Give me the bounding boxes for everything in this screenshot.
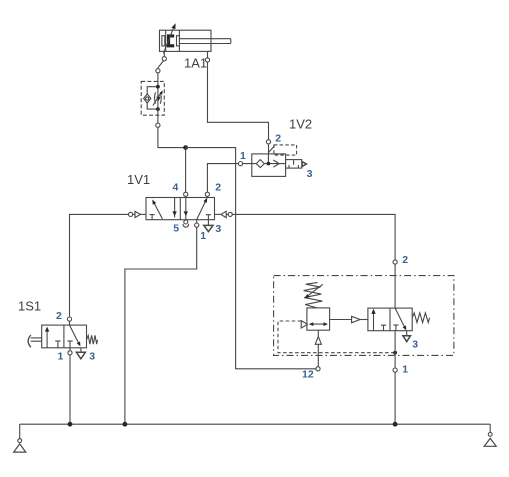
air supply source right (484, 424, 496, 446)
3/2 push button valve 1S1 body (42, 325, 87, 348)
wire junction A to sequence valve port 12 (186, 148, 316, 369)
1S1 right box blocked T (67, 341, 72, 348)
5/2 valve 1V1 body (146, 198, 215, 220)
cushioning adjust arrow (163, 23, 175, 53)
1V1 port 5 exhaust (183, 220, 189, 227)
svg-text:1V2: 1V2 (289, 117, 312, 132)
1S1 port 1 (68, 348, 72, 355)
svg-text:3: 3 (215, 223, 221, 235)
svg-text:1: 1 (58, 351, 64, 363)
svg-text:3: 3 (307, 168, 313, 180)
sequence valve pilot triangle (301, 321, 307, 328)
wire 1V1 port 1 to supply line (125, 227, 197, 424)
1V1 left box flow arrow (152, 200, 162, 219)
junction supply at sequence valve (393, 422, 398, 427)
wire junction A to 1V1 port 4 (184, 148, 188, 198)
svg-text:3: 3 (412, 339, 418, 351)
1V1 right box flow arrow 1 to 2 (197, 198, 208, 220)
sequence valve internal pilot dashed line (278, 321, 397, 355)
port circle cylinder left (162, 57, 166, 61)
wire 1V1 left pilot to 1S1 port 2 (67, 214, 128, 325)
sequence valve adjustable spring (304, 283, 323, 308)
svg-text:12: 12 (302, 368, 314, 380)
wire cylinder right port to 1V2 port 2 (208, 62, 271, 154)
svg-text:2: 2 (215, 182, 221, 194)
1S1 port 3 exhaust triangle (76, 348, 85, 359)
1S1 push button (28, 335, 42, 347)
sequence valve 3/2 body (368, 308, 412, 331)
1V1 left pilot (129, 211, 147, 217)
1V1 port 3 exhaust triangle (204, 220, 213, 232)
sequence 3/2 port 3 exhaust triangle (403, 331, 411, 342)
svg-text:1: 1 (402, 363, 408, 375)
wire flow control to junction A (156, 109, 186, 148)
pressure sequence valve enclosure (274, 276, 454, 356)
svg-text:5: 5 (173, 223, 179, 235)
sequence 3/2 return spring (412, 313, 429, 323)
air supply source left (14, 424, 26, 452)
svg-text:1S1: 1S1 (18, 299, 41, 314)
svg-text:2: 2 (56, 310, 62, 322)
junction supply at 1S1 (68, 422, 73, 427)
1S1 left box blocked T (55, 341, 60, 348)
quick exhaust valve 1V2 (252, 145, 297, 177)
wire cylinder left port to flow control (156, 61, 164, 87)
svg-text:3: 3 (89, 351, 95, 363)
svg-text:1: 1 (200, 230, 206, 242)
sequence valve amplifier link (330, 316, 368, 323)
sequence 3/2 right box blocked T (393, 325, 398, 331)
one-way flow control valve (141, 81, 164, 115)
1S1 right box exhaust arrow (70, 325, 81, 346)
wire sequence valve port 1 to supply line (393, 331, 397, 425)
svg-text:1: 1 (240, 150, 246, 162)
svg-text:2: 2 (275, 133, 281, 145)
1V1 left box down passage (172, 198, 176, 218)
1V1 right box blocked port T (206, 215, 211, 220)
svg-text:2: 2 (402, 254, 408, 266)
1S1 return spring (87, 335, 98, 344)
svg-text:1V1: 1V1 (127, 172, 150, 187)
sequence valve port 12 connection (315, 330, 321, 371)
svg-text:1A1: 1A1 (184, 56, 207, 71)
1V1 left box blocked port T (150, 215, 155, 220)
wire 1S1 port 1 to supply line (69, 355, 71, 424)
wire 1V2 port 1 to 1V1 port 2 (205, 162, 252, 198)
junction supply at 1V1 (123, 422, 128, 427)
1S1 left box flow arrow (45, 327, 49, 348)
cylinder 1A1 (160, 30, 231, 58)
silencer at 1V2 port 3 (286, 160, 307, 169)
svg-text:4: 4 (173, 182, 179, 194)
1V1 right pilot (215, 211, 233, 217)
sequence valve pressure setting element (307, 308, 330, 330)
port circle cylinder right (205, 58, 209, 62)
sequence 3/2 left box flow arrow (371, 309, 375, 331)
junction A (183, 145, 188, 150)
sequence 3/2 right box exhaust arrow (395, 308, 406, 330)
supply line (20, 423, 491, 425)
1V1 port 1 (195, 220, 199, 228)
sequence 3/2 left box blocked T (381, 325, 386, 331)
wire 1V1 right pilot to sequence valve port 2 (232, 214, 397, 308)
1V1 right box down passage 4 to 5 (184, 198, 188, 220)
